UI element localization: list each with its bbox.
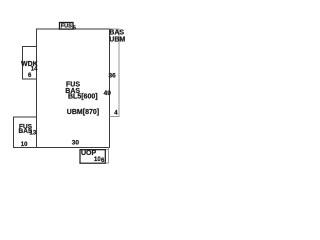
svg-text:10: 10 bbox=[21, 142, 28, 148]
svg-text:UOP: UOP bbox=[81, 150, 97, 157]
svg-text:4: 4 bbox=[114, 110, 118, 116]
svg-text:FUS: FUS bbox=[61, 24, 72, 30]
svg-text:UBM: UBM bbox=[109, 36, 125, 43]
svg-text:14: 14 bbox=[31, 66, 38, 72]
svg-text:13: 13 bbox=[30, 131, 37, 137]
svg-text:6: 6 bbox=[28, 73, 32, 79]
svg-text:BAS: BAS bbox=[109, 29, 124, 36]
svg-text:30: 30 bbox=[72, 140, 80, 147]
svg-text:BL5[600]: BL5[600] bbox=[68, 94, 98, 101]
svg-text:UBM[870]: UBM[870] bbox=[67, 109, 99, 116]
svg-text:5: 5 bbox=[73, 25, 76, 31]
svg-text:36: 36 bbox=[109, 72, 117, 79]
svg-text:49: 49 bbox=[104, 90, 112, 97]
